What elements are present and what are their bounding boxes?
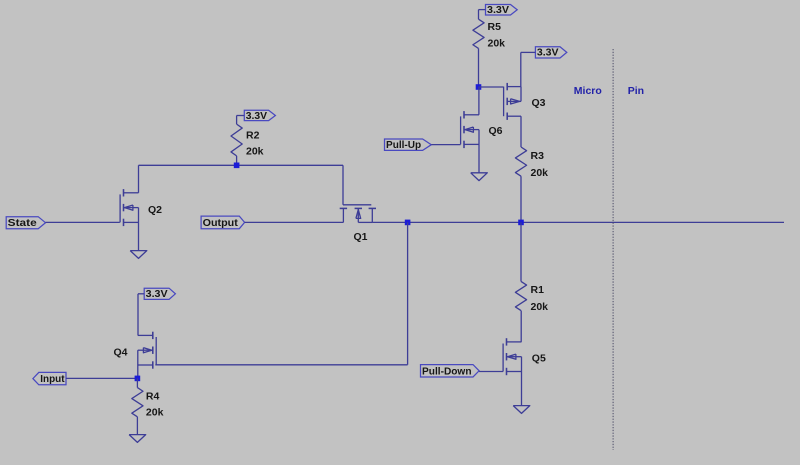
transistor Q4 [138,332,156,369]
svg-text:R4: R4 [146,390,160,402]
svg-text:3.3V: 3.3V [146,289,168,300]
wire output node [372,221,784,223]
power flag 3.3V (Q4) [138,288,175,335]
wire R3 to output node [520,176,522,222]
transistor Q5 [503,338,521,375]
transistor Q1 [340,205,376,223]
wire R2 rail [139,164,344,166]
svg-text:3.3V: 3.3V [537,48,559,59]
wire Q2 drain to rail [138,165,140,193]
svg-text:Pull-Down: Pull-Down [422,365,472,377]
label R2 [246,129,260,141]
power flag 3.3V (R2) [237,110,276,124]
label Q4 [114,346,128,358]
wire feedback to Q4 gate [155,364,407,366]
svg-text:Micro: Micro [574,85,602,97]
value 20k (R1) [531,301,549,313]
wire R5 to node [478,48,480,87]
ground Q5 [513,406,530,414]
label Micro [574,85,602,97]
wire Q3 drain to R3 [520,116,522,147]
svg-text:Q5: Q5 [532,352,546,364]
svg-text:Pull-Up: Pull-Up [386,139,421,151]
label Q3 [532,97,546,109]
svg-text:Q3: Q3 [532,97,546,109]
svg-text:R3: R3 [531,150,545,162]
value 20k (R2) [246,146,264,158]
label Q2 [148,204,162,216]
svg-text:Pin: Pin [628,85,644,97]
svg-text:Q4: Q4 [114,346,128,358]
transistor Q6 [461,111,479,148]
svg-text:20k: 20k [531,167,549,179]
label R1 [531,284,545,296]
svg-text:Q1: Q1 [354,231,368,243]
label Pin [628,85,644,97]
dashed partition line Micro/Pin [612,49,614,450]
svg-text:R1: R1 [531,284,545,296]
transistor Q3 [504,83,521,120]
wire Q2 source to ground [138,222,140,250]
resistor R3 [515,147,526,176]
wire node to Q6 drain [478,87,480,115]
resistor R5 [473,19,484,48]
wire Q6 source to ground [478,144,480,172]
svg-text:R2: R2 [246,129,260,141]
input flag Pull-Up [385,139,461,151]
ground Q6 [471,173,488,181]
junction R2 rail [234,163,240,169]
resistor R4 [132,388,143,417]
svg-text:3.3V: 3.3V [246,111,268,122]
label Q5 [532,352,546,364]
power flag 3.3V (Q3) [521,47,567,87]
label Q6 [489,125,503,137]
label R4 [146,390,160,402]
junction R1-R3 node [518,220,524,226]
junction input node [135,376,141,382]
wire input node to R4 [136,378,138,387]
wire Q5 source to ground [521,372,523,406]
power flag 3.3V (R5) [479,5,518,20]
svg-text:20k: 20k [531,301,549,313]
svg-text:20k: 20k [488,38,506,50]
svg-text:20k: 20k [246,146,264,158]
input flag State [6,217,120,229]
svg-text:Q2: Q2 [148,204,162,216]
svg-text:Input: Input [40,373,65,385]
svg-text:20k: 20k [146,407,164,419]
resistor R1 [515,281,526,310]
input flag Input [33,372,137,385]
transistor Q2 [120,189,138,226]
ground R4 [129,435,146,443]
ground Q2 [130,251,147,259]
value 20k (R4) [146,407,164,419]
resistor R2 [231,124,242,156]
value 20k (R5) [488,38,506,50]
label R5 [488,21,502,33]
output flag Output [201,216,343,229]
wire rail to Q1 gate [342,165,344,205]
wire node to R1 [520,222,522,281]
label R3 [531,150,545,162]
wire feedback vertical [407,222,409,364]
label Q1 [354,231,368,243]
wire R4 to ground [136,417,138,435]
svg-text:3.3V: 3.3V [487,5,509,16]
wire Q4 source to input node [137,365,139,379]
input flag Pull-Down [421,365,504,378]
wire node to Q3 gate [479,86,504,88]
wire R1 to Q5 [520,311,522,342]
node junction R5-Q6-Q3 [476,84,482,90]
svg-text:Q6: Q6 [489,125,503,137]
junction feedback node [405,220,411,226]
svg-text:State: State [8,217,37,229]
wire R2 bottom [236,156,238,165]
svg-text:Output: Output [203,217,239,229]
svg-text:R5: R5 [488,21,502,33]
value 20k (R3) [531,167,549,179]
